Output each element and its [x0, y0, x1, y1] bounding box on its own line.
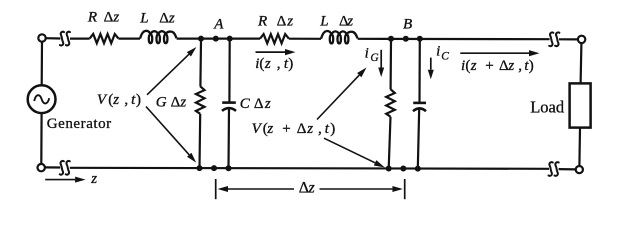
svg-text:R: R [87, 10, 97, 26]
svg-text:B: B [403, 17, 412, 33]
junction dot (C dz branch, bottom) [226, 165, 232, 171]
svg-text:(: ( [259, 56, 264, 72]
inductor L dz (series, section 1) [140, 31, 177, 43]
line-break symbol (top right) [549, 32, 559, 46]
svg-text:Δ: Δ [159, 10, 169, 26]
generator source symbol (circle) [28, 85, 56, 113]
current arrow i(z+dz,t) [460, 52, 529, 54]
svg-text:Δ: Δ [104, 10, 114, 26]
svg-text:Δ: Δ [277, 13, 287, 29]
svg-text:,: , [277, 56, 281, 72]
junction dot (G dz branch, bottom) [197, 165, 203, 171]
wire: load down to bottom right terminal [578, 128, 581, 166]
svg-text:z: z [286, 13, 293, 29]
svg-text:z: z [179, 95, 186, 111]
svg-text:z: z [308, 179, 316, 196]
resistor R dz (series, section 1) [90, 34, 119, 43]
terminal (bottom right, open circle) [576, 166, 583, 173]
second conductance G dz (vertical resistor) [386, 89, 395, 117]
dimension tick at node A [215, 179, 217, 199]
second capacitor bottom (curved) plate [413, 108, 426, 111]
svg-text:z: z [112, 10, 119, 26]
current arrow i_C (downward) [430, 58, 432, 70]
svg-text:Δ: Δ [171, 95, 181, 111]
capacitor C dz top plate [222, 101, 236, 104]
svg-text:,: , [518, 58, 522, 74]
wire: top rail from generator terminal to break [46, 37, 61, 39]
wire: top-left terminal down to generator [41, 42, 43, 86]
wire: G dz down to bottom rail [198, 114, 201, 168]
wire: inductor to node A group [177, 37, 260, 39]
svg-text:+: + [485, 58, 493, 74]
capacitor C dz bottom (curved) plate [222, 108, 236, 111]
svg-text:G: G [156, 95, 167, 111]
node B junction dot [403, 36, 409, 42]
svg-text:z: z [470, 58, 477, 74]
junction dot (node B bottom) [400, 166, 406, 172]
dimension arrow pointing right to tick B [320, 188, 393, 190]
svg-text:A: A [213, 17, 224, 33]
junction dot (node A bottom) [211, 165, 217, 171]
wire: generator down to bottom-left terminal [40, 113, 42, 164]
wire: resistor to inductor (section 1) [119, 37, 141, 39]
svg-text:z: z [90, 171, 97, 187]
svg-text:z: z [112, 92, 119, 108]
svg-text:z: z [264, 96, 271, 112]
svg-text:z: z [306, 121, 313, 137]
junction dot (second C dz branch, top) [417, 36, 423, 42]
wire: resistor to inductor (section 2) [289, 38, 321, 40]
line-break symbol (bottom left) [60, 161, 70, 175]
svg-text:): ) [288, 56, 293, 72]
svg-text:C: C [441, 51, 449, 63]
svg-text:z: z [507, 58, 514, 74]
junction dot (second C dz branch, bottom) [415, 166, 421, 172]
svg-text:(: ( [465, 58, 470, 74]
terminal (top right, open circle) [578, 36, 585, 43]
svg-text:C: C [240, 96, 251, 112]
node A junction dot [213, 36, 219, 42]
svg-text:i: i [436, 43, 440, 59]
svg-text:): ) [529, 58, 534, 74]
wire: break to load terminal [559, 38, 578, 40]
pointer arrow V(z+dz,t) to bottom node [324, 138, 375, 163]
wire: second capacitor down to bottom rail [418, 108, 419, 168]
z axis arrow [45, 179, 75, 181]
wire: bottom break to load terminal [559, 168, 576, 170]
wire: node B group down to second conductance [390, 41, 393, 89]
svg-text:+: + [282, 121, 290, 137]
svg-text:z: z [346, 13, 353, 29]
svg-text:Δ: Δ [297, 121, 307, 137]
conductance G dz (vertical resistor) [196, 86, 205, 114]
svg-text:,: , [124, 92, 128, 108]
svg-text:z: z [266, 121, 273, 137]
svg-text:Load: Load [530, 98, 565, 117]
wire: bottom rail, terminal to break [45, 166, 60, 168]
junction dot (second G dz branch, top) [388, 36, 394, 42]
svg-text:): ) [136, 92, 141, 108]
wire: second conductance down to bottom rail [389, 117, 391, 169]
svg-text:L: L [139, 10, 148, 26]
generator sine wave glyph [34, 95, 49, 103]
svg-text:L: L [319, 13, 328, 29]
svg-text:): ) [330, 121, 335, 137]
resistor R dz (series, section 2) [260, 34, 289, 43]
pointer arrow V(z,t) to top node [147, 54, 189, 95]
wire: inductor to node B group and on to break [358, 38, 550, 41]
current arrow i(z,t) [256, 51, 286, 53]
wire: bottom rail main run [70, 168, 549, 169]
svg-text:,: , [318, 121, 322, 137]
second capacitor top plate [413, 102, 426, 105]
load (rectangle) [570, 83, 591, 127]
pointer arrow V(z,t) to bottom node [146, 107, 189, 155]
svg-text:Δ: Δ [254, 96, 264, 112]
line-break symbol (top left) [60, 32, 70, 46]
junction dot (C dz branch, top) [227, 36, 233, 42]
dimension tick at node B [404, 179, 406, 199]
svg-text:G: G [370, 52, 379, 64]
inductor L dz (series, section 2) [321, 31, 358, 43]
wire: C dz down to bottom rail [227, 108, 230, 168]
terminal (bottom left, open circle) [38, 164, 45, 171]
svg-text:z: z [264, 56, 271, 72]
wire: top right terminal down to load [579, 43, 582, 83]
line-break symbol (bottom right) [549, 162, 559, 176]
wire: node B group down to second capacitor [418, 41, 420, 103]
dimension arrow pointing left to tick A [228, 188, 294, 190]
wire: node A group down to conductance G dz [199, 41, 202, 86]
junction dot (second G dz branch, bottom) [386, 166, 392, 172]
wire: node A group down to capacitor C dz [228, 41, 231, 102]
junction dot (G dz branch, top) [198, 36, 204, 42]
terminal (top left, open circle) [38, 34, 45, 41]
wire: break to resistor (section 1) [70, 37, 90, 39]
svg-text:Δ: Δ [299, 179, 309, 196]
current arrow i_G (downward) [380, 50, 382, 68]
pointer arrow V(z+dz,t) upward [317, 75, 359, 119]
svg-text:R: R [257, 13, 267, 29]
svg-text:i: i [365, 45, 369, 61]
svg-text:z: z [168, 10, 175, 26]
svg-text:Generator: Generator [47, 116, 112, 132]
